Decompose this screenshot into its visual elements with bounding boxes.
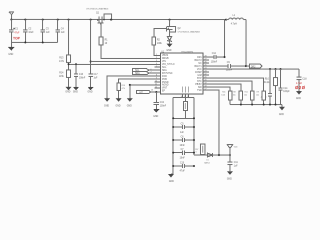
capacitor C4 bbox=[56, 20, 60, 43]
capacitor C14 bbox=[278, 69, 282, 105]
svg-text:4.7k: 4.7k bbox=[122, 88, 125, 90]
svg-text:VIO_STYLO: VIO_STYLO bbox=[162, 64, 175, 66]
svg-text:R8: R8 bbox=[233, 91, 235, 93]
svg-text:GND: GND bbox=[73, 91, 78, 93]
svg-text:10k: 10k bbox=[256, 94, 259, 96]
svg-text:Ø2Ø: Ø2Ø bbox=[295, 85, 306, 90]
svg-text:EP: EP bbox=[162, 91, 166, 93]
wire GND stub r8 bbox=[107, 76, 161, 98]
svg-text:SDA: SDA bbox=[135, 72, 140, 75]
inductor L1 bbox=[226, 18, 246, 20]
capacitor C17 bbox=[88, 74, 94, 90]
IC U1 left pin names bbox=[162, 55, 175, 92]
svg-text:27: 27 bbox=[205, 59, 207, 61]
svg-text:7: 7 bbox=[151, 72, 152, 74]
net label SCL bbox=[133, 69, 149, 72]
svg-text:GND: GND bbox=[115, 105, 120, 107]
svg-text:C18: C18 bbox=[302, 78, 307, 80]
resistor R2 bbox=[152, 37, 156, 45]
svg-text:10nF: 10nF bbox=[180, 145, 186, 147]
svg-text:1: 1 bbox=[156, 54, 157, 56]
ferrite bead FB1 bbox=[184, 97, 186, 101]
svg-text:R17: R17 bbox=[195, 149, 198, 151]
ground pulldown rail bbox=[281, 105, 283, 107]
resistor R15 bbox=[228, 91, 232, 100]
svg-text:VBUS: VBUS bbox=[162, 55, 169, 57]
ground below C18 bbox=[296, 91, 302, 95]
wire ladder tie2 bbox=[173, 117, 194, 119]
resistor R14 bbox=[68, 63, 70, 70]
capacitor C12 bbox=[203, 55, 225, 59]
ground left cluster 3 bbox=[127, 98, 133, 102]
capacitor C2 bbox=[23, 20, 27, 43]
svg-text:DR1: DR1 bbox=[197, 57, 202, 59]
resistor R9 bbox=[262, 91, 266, 100]
svg-text:22: 22 bbox=[205, 74, 207, 76]
capacitor C6 bbox=[173, 138, 194, 142]
svg-text:6: 6 bbox=[151, 69, 152, 71]
transistor Q2 bbox=[166, 20, 175, 37]
wire cap bank bottom rail bbox=[11, 41, 57, 43]
svg-text:FOR: FOR bbox=[162, 76, 167, 78]
wire Q1 gate column bbox=[90, 20, 92, 74]
svg-text:ILIM: ILIM bbox=[197, 75, 202, 77]
ground ladder left rail bbox=[171, 173, 173, 175]
svg-text:TOP: TOP bbox=[13, 37, 21, 41]
ground below D2 bbox=[167, 44, 173, 48]
svg-text:100nF: 100nF bbox=[226, 69, 233, 71]
IC U1 pin numbers left bbox=[151, 54, 158, 91]
IC U1 left pin stubs bbox=[149, 55, 161, 92]
net label INT bbox=[137, 90, 151, 94]
svg-text:VINT: VINT bbox=[162, 88, 168, 90]
svg-text:10nF: 10nF bbox=[180, 157, 186, 159]
svg-text:3: 3 bbox=[156, 60, 157, 62]
svg-text:2: 2 bbox=[156, 57, 157, 59]
wire bottom net row bbox=[194, 154, 230, 156]
svg-text:100k: 100k bbox=[157, 43, 163, 45]
wire top rail bbox=[11, 19, 226, 21]
svg-text:102k: 102k bbox=[221, 94, 225, 96]
svg-text:1uF: 1uF bbox=[94, 77, 99, 79]
svg-text:BAVY1: BAVY1 bbox=[195, 65, 203, 68]
wire VIN column to C12 row bbox=[224, 20, 226, 57]
svg-text:GND: GND bbox=[8, 54, 13, 56]
wire IC bottom tie bbox=[173, 96, 194, 98]
svg-text:R16: R16 bbox=[122, 85, 125, 87]
wire fan row to R9 bbox=[203, 78, 264, 91]
IC U1 bottom pin numbers bbox=[181, 96, 189, 98]
svg-text:1uF: 1uF bbox=[46, 32, 51, 34]
svg-text:GND: GND bbox=[88, 91, 93, 93]
svg-text:PGND: PGND bbox=[162, 82, 169, 84]
svg-text:GND: GND bbox=[227, 178, 232, 180]
capacitor C1 bbox=[9, 20, 13, 43]
capacitor C5 bbox=[173, 125, 194, 129]
svg-text:100pF: 100pF bbox=[283, 91, 290, 93]
node junctions on top rail bbox=[24, 19, 227, 21]
resistor R10 bbox=[275, 69, 277, 78]
svg-text:10: 10 bbox=[155, 81, 157, 83]
svg-text:CP14780450S_ZMA67BA53: CP14780450S_ZMA67BA53 bbox=[86, 7, 108, 10]
svg-text:TPS52286EFM: TPS52286EFM bbox=[181, 51, 194, 53]
svg-text:26: 26 bbox=[205, 62, 207, 64]
svg-text:100nF: 100nF bbox=[160, 106, 167, 108]
capacitor C16 bbox=[73, 64, 79, 90]
svg-text:13: 13 bbox=[151, 89, 153, 91]
power flag VBUS bbox=[9, 12, 14, 20]
IC U1 right pin names bbox=[195, 57, 203, 92]
svg-text:GND: GND bbox=[104, 105, 109, 107]
capacitor C10 bbox=[173, 164, 194, 168]
svg-text:CP14780450S_ZMA67BA53: CP14780450S_ZMA67BA53 bbox=[178, 31, 200, 34]
wire fan row to R15 bbox=[203, 87, 230, 91]
svg-text:GND: GND bbox=[169, 181, 174, 183]
capacitor C7 bbox=[173, 150, 194, 154]
ground below C11 bbox=[227, 171, 233, 175]
svg-text:0: 0 bbox=[196, 152, 197, 154]
ground left cluster 2 bbox=[116, 98, 122, 102]
svg-text:C14: C14 bbox=[283, 88, 288, 90]
svg-text:47uF: 47uF bbox=[180, 170, 186, 172]
capacitor C13 bbox=[153, 92, 159, 113]
svg-text:4: 4 bbox=[156, 63, 157, 65]
wire R2 top to Q2 gate bbox=[154, 28, 167, 37]
wire R1 to IC row2 bbox=[101, 45, 161, 58]
svg-text:GND: GND bbox=[153, 116, 158, 118]
ground left cluster 1 bbox=[104, 98, 110, 102]
svg-text:BYP: BYP bbox=[197, 78, 202, 80]
svg-text:BAT54: BAT54 bbox=[204, 162, 209, 165]
svg-text:GND: GND bbox=[127, 105, 132, 107]
IC U1 bbox=[161, 53, 203, 94]
svg-text:ISR: ISR bbox=[198, 87, 202, 89]
svg-text:GND: GND bbox=[166, 50, 171, 52]
svg-text:23: 23 bbox=[205, 71, 207, 73]
svg-text:SCL: SCL bbox=[162, 67, 167, 69]
svg-text:1uF: 1uF bbox=[234, 166, 239, 168]
wire long row VCC bbox=[203, 68, 299, 70]
svg-text:VIN: VIN bbox=[162, 61, 166, 63]
wire R2 bottom to IC row1 bbox=[154, 45, 161, 55]
svg-text:C10: C10 bbox=[180, 162, 185, 164]
svg-text:10k: 10k bbox=[233, 94, 236, 96]
IC U1 right pin stubs bbox=[203, 57, 209, 90]
svg-text:GND: GND bbox=[279, 114, 284, 116]
svg-text:DRGB: DRGB bbox=[162, 58, 169, 60]
svg-text:100nF: 100nF bbox=[79, 77, 86, 79]
wire ladder right rail bbox=[193, 97, 195, 155]
svg-text:R9: R9 bbox=[257, 91, 259, 93]
wire row down to bottom net bbox=[203, 90, 219, 155]
resistor R1 bbox=[100, 23, 102, 37]
diode D2 zener bbox=[167, 37, 171, 44]
resistor R16 bbox=[119, 79, 161, 83]
svg-text:R11: R11 bbox=[245, 91, 248, 93]
capacitor C18 bbox=[296, 69, 301, 91]
capacitor C11 bbox=[227, 155, 232, 171]
svg-text:10k: 10k bbox=[244, 94, 247, 96]
svg-text:C17: C17 bbox=[94, 74, 99, 76]
svg-text:R10: R10 bbox=[265, 78, 270, 80]
wire row3 to IC bbox=[91, 60, 161, 62]
net label DR2 bbox=[249, 64, 262, 68]
svg-text:R15: R15 bbox=[222, 91, 225, 93]
svg-text:INT/SYNC: INT/SYNC bbox=[162, 73, 173, 75]
diode D1 bbox=[207, 153, 212, 157]
ground GND1 bbox=[8, 42, 14, 50]
svg-text:TSR: TSR bbox=[197, 90, 202, 92]
capacitor C15 bbox=[268, 69, 272, 105]
svg-text:C12: C12 bbox=[212, 53, 217, 55]
wire divider tap row to IC bbox=[69, 63, 161, 65]
svg-text:R14: R14 bbox=[59, 72, 64, 74]
svg-text:NTC: NTC bbox=[197, 81, 202, 83]
svg-text:COMP: COMP bbox=[195, 72, 202, 74]
svg-text:R13: R13 bbox=[59, 57, 64, 59]
ground below R14 bbox=[68, 78, 70, 87]
svg-text:1uF: 1uF bbox=[61, 32, 66, 34]
svg-text:AGND: AGND bbox=[162, 84, 169, 87]
IC U1 pin numbers right bbox=[205, 56, 207, 91]
transistor Q1 bbox=[96, 14, 111, 24]
svg-text:SDA: SDA bbox=[162, 69, 167, 72]
svg-text:100nF: 100nF bbox=[211, 62, 218, 64]
IC U1 bottom pin stubs bbox=[182, 94, 188, 97]
wire ladder left rail bbox=[172, 97, 174, 174]
svg-text:DR2: DR2 bbox=[251, 66, 256, 68]
svg-text:GND: GND bbox=[296, 98, 301, 100]
svg-text:147k: 147k bbox=[59, 61, 65, 63]
wire L1 output down bbox=[245, 20, 247, 66]
wire fan row to R8 bbox=[203, 84, 241, 91]
capacitor C3 bbox=[41, 20, 45, 43]
svg-text:C16: C16 bbox=[79, 74, 84, 76]
svg-text:47uF: 47uF bbox=[14, 32, 20, 34]
wire r11 junction bbox=[130, 85, 161, 98]
svg-text:POB: POB bbox=[162, 79, 167, 81]
net label SDA bbox=[133, 72, 149, 75]
resistor R11 bbox=[250, 91, 254, 100]
svg-text:GND: GND bbox=[65, 91, 70, 93]
resistor R13 bbox=[68, 20, 70, 55]
capacitor C9 bbox=[203, 64, 250, 68]
svg-text:12: 12 bbox=[155, 86, 157, 88]
svg-text:1uF: 1uF bbox=[180, 132, 185, 134]
power flag VDD bbox=[227, 144, 233, 155]
svg-text:5: 5 bbox=[156, 66, 157, 68]
svg-text:D1: D1 bbox=[206, 159, 208, 161]
svg-text:BAVY2: BAVY2 bbox=[195, 59, 203, 62]
svg-text:VCC: VCC bbox=[197, 69, 202, 71]
svg-text:INT: INT bbox=[139, 92, 143, 94]
svg-text:34.2k: 34.2k bbox=[264, 82, 270, 84]
wire fan row to R11 bbox=[203, 81, 252, 91]
svg-text:10uF: 10uF bbox=[28, 32, 34, 34]
svg-text:C13: C13 bbox=[160, 102, 165, 104]
svg-text:NC: NC bbox=[198, 63, 202, 65]
wire pulldown gnd rail bbox=[230, 100, 264, 105]
svg-text:4.7uH: 4.7uH bbox=[231, 24, 237, 26]
svg-text:PB/5V: PB/5V bbox=[195, 84, 202, 86]
resistor R8 bbox=[239, 91, 243, 100]
IC U1 bottom inside rotated labels bbox=[182, 87, 189, 93]
